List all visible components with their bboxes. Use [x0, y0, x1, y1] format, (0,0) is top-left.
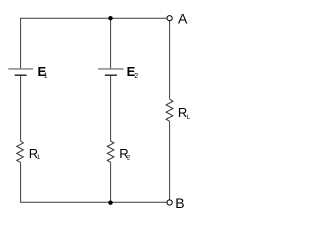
svg-text:A: A [178, 10, 188, 26]
svg-text:L: L [187, 114, 191, 121]
svg-text:2: 2 [134, 73, 138, 80]
svg-text:B: B [175, 195, 184, 211]
svg-text:1: 1 [44, 73, 48, 80]
